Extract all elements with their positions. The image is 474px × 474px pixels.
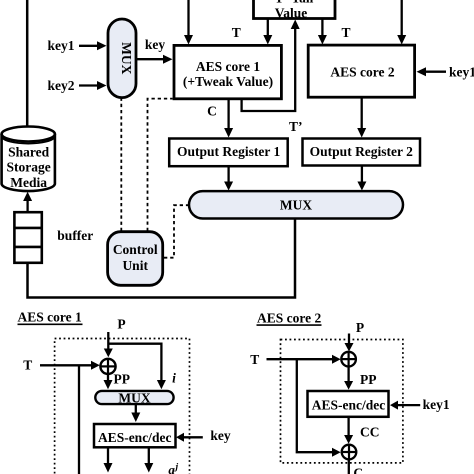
arrow P into xor1L (104, 349, 113, 358)
svg-text:MUX: MUX (280, 198, 312, 213)
block AES core 2 (308, 45, 414, 97)
wire key1 to MUX (79, 41, 107, 50)
mux MUX (left detail pill) (95, 391, 173, 406)
storage cylinder Shared Storage Media (2, 127, 55, 192)
mux output MUX (horizontal pill) (189, 191, 403, 218)
wire C output (right detail) (348, 459, 350, 474)
wire key1 to AES-enc/dec (right detail) (390, 401, 420, 410)
svg-text:key1: key1 (423, 397, 450, 412)
block AES-enc/dec (right detail) (308, 391, 389, 417)
register Value (T=Tail Value, clipped at top) (254, 0, 336, 20)
wire dashed key MUX to Control Unit (120, 98, 122, 231)
svg-text:Output Register 1: Output Register 1 (177, 144, 280, 159)
svg-text:P: P (356, 320, 364, 335)
svg-text:buffer: buffer (57, 228, 93, 243)
svg-text:i: i (172, 370, 176, 385)
wire Output Register 2 to output MUX (357, 166, 366, 191)
wire key2 to MUX (79, 81, 107, 90)
wire output a (left detail) (104, 447, 113, 472)
wire MUX to AES-enc/dec (left detail) (131, 404, 140, 422)
wire T input (left detail) (40, 361, 100, 370)
dotted boundary AES core 2 detail (281, 340, 403, 463)
svg-text:T: T (232, 25, 241, 40)
register Output Register 1 (169, 139, 288, 167)
block Control Unit (108, 232, 163, 286)
svg-text:C: C (353, 466, 363, 474)
svg-text:Shared: Shared (8, 145, 50, 160)
mux key MUX (vertical pill) (108, 19, 136, 98)
wire T' feedback AES core 1 to Value (242, 20, 300, 112)
wire key MUX to AES core 1 (136, 55, 173, 64)
svg-text:Storage: Storage (6, 160, 50, 175)
wire AES core 1 to Output Register 1 (224, 99, 233, 138)
svg-text:MUX: MUX (118, 391, 150, 406)
heading AES core 2 (detail) (257, 310, 322, 325)
wire xor1L to MUX (left detail) (104, 374, 113, 389)
wire plaintext input to AES core 1 (184, 0, 193, 45)
xor X1R (341, 352, 356, 367)
wire key1 to AES core 2 (417, 67, 447, 76)
wire buffer to storage (23, 192, 32, 212)
xor X2R (342, 445, 357, 460)
svg-text:key: key (145, 37, 166, 52)
svg-text:AES-enc/dec: AES-enc/dec (312, 398, 386, 413)
wire P input (right detail) (345, 334, 354, 352)
wire Value to AES core 2 (318, 19, 327, 45)
buffer (FIFO stack) (14, 212, 41, 263)
xor X1L (100, 359, 115, 374)
svg-text:MUX: MUX (119, 42, 134, 74)
svg-text:T: T (23, 358, 32, 373)
wire key to AES-enc/dec (left detail) (176, 433, 203, 442)
svg-text:AES core 2: AES core 2 (330, 65, 394, 80)
svg-text:P: P (117, 316, 125, 331)
heading AES core 1 (detail) (18, 310, 83, 325)
svg-text:Unit: Unit (122, 258, 148, 273)
svg-text:AES core 1: AES core 1 (196, 59, 260, 74)
svg-text:T: T (341, 25, 350, 40)
wire output MUX to buffer (28, 219, 296, 298)
svg-text:(+Tweak Value): (+Tweak Value) (183, 74, 273, 89)
wire P input (left detail) (107, 332, 109, 355)
svg-text:C: C (207, 103, 217, 118)
svg-text:AES core 2: AES core 2 (257, 310, 321, 325)
wire AES-enc/dec to xor2R (344, 417, 353, 444)
svg-text:AES core 1: AES core 1 (18, 310, 82, 325)
wire Output Register 1 to output MUX (224, 166, 233, 190)
wire Value to AES core 1 (263, 19, 272, 45)
wire T feedthrough down (left detail) (78, 365, 80, 474)
wire dashed Control Unit to output MUX (164, 205, 188, 258)
wire dashed Control Unit to AES core 1 (148, 99, 173, 231)
wire storage input line (26, 0, 29, 130)
svg-text:key: key (210, 428, 231, 443)
register Output Register 2 (303, 139, 421, 166)
svg-text:T’: T’ (289, 119, 303, 134)
svg-text:Media: Media (10, 175, 47, 190)
svg-text:PP: PP (360, 372, 377, 387)
svg-text:a: a (168, 462, 175, 474)
wire AES core 2 to Output Register 2 (357, 97, 366, 137)
svg-text:CC: CC (360, 424, 380, 439)
svg-text:key2: key2 (48, 78, 75, 93)
block AES core 1 (174, 45, 281, 98)
svg-text:key1: key1 (48, 38, 75, 53)
svg-text:T: T (250, 352, 259, 367)
svg-text:PP: PP (114, 372, 131, 387)
wire T input (right detail) (267, 355, 341, 364)
wire xor1R to AES-enc/dec (right detail) (344, 366, 353, 389)
dotted boundary AES core 1 detail (55, 339, 190, 474)
svg-text:Output Register 2: Output Register 2 (310, 144, 413, 159)
svg-text:key1: key1 (449, 64, 474, 79)
wire T feedthrough to xor2R (297, 359, 341, 457)
block AES-enc/dec (left detail) (94, 424, 176, 447)
wire i branch (108, 344, 166, 390)
svg-text:Value: Value (275, 5, 308, 20)
svg-text:Control: Control (113, 242, 158, 257)
svg-text:AES-enc/dec: AES-enc/dec (98, 430, 172, 445)
wire output b (left detail) (144, 447, 153, 472)
wire plaintext input to AES core 2 (397, 0, 406, 45)
label a^j (168, 462, 178, 474)
